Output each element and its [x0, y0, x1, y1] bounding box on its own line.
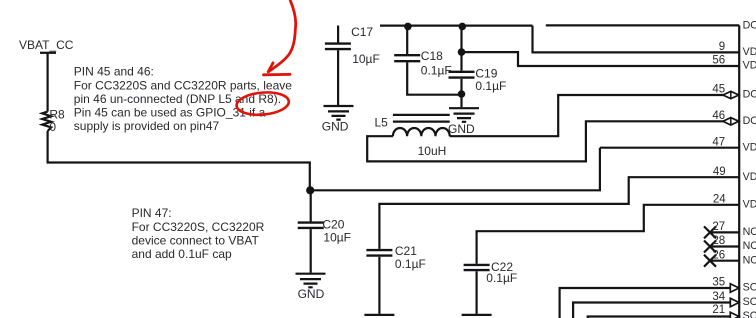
- svg-text:C20: C20: [322, 218, 344, 232]
- svg-text:47: 47: [712, 136, 725, 148]
- svg-text:28: 28: [712, 235, 725, 247]
- svg-text:SOP: SOP: [743, 282, 756, 294]
- svg-text:GND: GND: [448, 122, 475, 136]
- wire rail drop to pin 9: [533, 26, 740, 53]
- wire C18 bottom to C19 node: [407, 62, 461, 94]
- svg-text:0.1µF: 0.1µF: [475, 79, 506, 93]
- svg-text:DCD: DCD: [743, 89, 756, 101]
- no-connect X pin 27: [704, 226, 716, 238]
- capacitor C17: [325, 44, 351, 50]
- wire C20 to ground: [310, 229, 312, 273]
- capacitor C22: [464, 265, 490, 270]
- wire C17 to ground: [337, 50, 339, 105]
- note PIN 45 and 46: [74, 65, 292, 133]
- red annotation oval around and R8: [236, 90, 290, 116]
- ground bar under C21: [364, 314, 394, 316]
- svg-text:SOP: SOP: [743, 310, 756, 318]
- inductor L5 core lines: [393, 115, 450, 122]
- junction dot rail C18: [404, 23, 412, 31]
- svg-text:SOP: SOP: [743, 296, 756, 308]
- svg-text:0.1µF: 0.1µF: [395, 257, 426, 271]
- wire C22 riser to pin 24: [477, 205, 740, 264]
- wire C17 top stub: [337, 26, 339, 43]
- svg-text:56: 56: [712, 55, 725, 67]
- wire C21 to ground: [378, 257, 380, 314]
- ground bar under C22: [462, 314, 492, 316]
- svg-text:NC: NC: [743, 254, 756, 266]
- wire C19 branch: [460, 26, 462, 71]
- wire pin 21 from bottom: [588, 317, 731, 318]
- input arrow pin 21: [730, 312, 739, 318]
- junction dot rail C19: [459, 23, 467, 31]
- svg-text:NC: NC: [743, 240, 756, 252]
- svg-text:GND: GND: [322, 120, 349, 134]
- svg-text:PIN 45 and 46:: PIN 45 and 46:: [74, 65, 154, 79]
- inductor L5: [393, 128, 450, 136]
- svg-text:C21: C21: [395, 244, 417, 258]
- svg-text:For CC3220S and CC3220R parts,: For CC3220S and CC3220R parts, leave: [74, 78, 292, 92]
- bidirectional arrow pin 45: [723, 91, 739, 98]
- ground under C19: [449, 108, 479, 122]
- wire NC pin 26 stub: [710, 260, 739, 262]
- svg-text:10uH: 10uH: [418, 144, 447, 158]
- svg-text:0.1µF: 0.1µF: [421, 64, 452, 78]
- svg-text:34: 34: [712, 291, 725, 303]
- svg-text:46: 46: [712, 110, 725, 122]
- svg-text:27: 27: [712, 221, 725, 233]
- wire C21 riser to pin 49: [379, 177, 739, 249]
- svg-text:PIN 47:: PIN 47:: [132, 206, 172, 220]
- junction dot node VDD_ANA: [306, 186, 314, 194]
- svg-text:45: 45: [712, 84, 725, 96]
- svg-text:10µF: 10µF: [323, 231, 351, 245]
- no-connect X pin 26: [704, 255, 716, 267]
- bidirectional arrow pin 46: [723, 118, 739, 125]
- svg-text:C18: C18: [421, 49, 443, 63]
- wire pin 56 from C19: [462, 52, 740, 66]
- wire C22 to ground: [476, 271, 478, 314]
- junction dot C19 bottom: [458, 90, 466, 98]
- wire NC pin 27 stub: [710, 231, 739, 233]
- svg-text:DCD: DCD: [743, 20, 756, 32]
- capacitor C21: [366, 250, 392, 256]
- red annotation arrowhead: [264, 63, 291, 75]
- note PIN 47: [132, 206, 265, 261]
- svg-text:VDD: VDD: [743, 141, 756, 153]
- capacitor C18: [394, 55, 420, 61]
- svg-text:For CC3220S, CC3220R: For CC3220S, CC3220R: [132, 220, 265, 234]
- svg-text:device connect to VBAT: device connect to VBAT: [132, 233, 260, 247]
- capacitor C19: [449, 72, 475, 78]
- svg-text:supply is provided on pin47: supply is provided on pin47: [74, 119, 220, 133]
- svg-text:VDD: VDD: [743, 198, 756, 210]
- svg-text:GND: GND: [298, 287, 325, 301]
- input arrow pin 34: [730, 298, 739, 307]
- svg-text:21: 21: [712, 304, 725, 316]
- svg-text:35: 35: [712, 277, 725, 289]
- svg-text:and add 0.1uF cap: and add 0.1uF cap: [132, 247, 232, 261]
- wire L5 left to pin 46: [367, 121, 739, 161]
- capacitor C20: [298, 223, 324, 228]
- svg-text:0: 0: [49, 120, 56, 134]
- ground under C17: [324, 106, 354, 120]
- ground under C20: [296, 274, 326, 288]
- wire junction to C20: [310, 190, 312, 221]
- svg-text:49: 49: [713, 166, 726, 178]
- svg-text:10µF: 10µF: [352, 52, 380, 66]
- junction dot C19 pin56: [458, 48, 466, 56]
- wire C18 branch: [406, 26, 408, 54]
- no-connect X pin 28: [704, 241, 716, 253]
- svg-text:DCD: DCD: [743, 115, 756, 127]
- wire R8 to corner and across to junction: [48, 131, 310, 190]
- svg-text:0.1µF: 0.1µF: [486, 271, 517, 285]
- wire top DC pin: [546, 24, 739, 26]
- red annotation arrow: [268, 1, 295, 72]
- svg-text:L5: L5: [375, 116, 389, 130]
- svg-text:9: 9: [719, 41, 725, 53]
- wire L5 right to pin 45: [450, 95, 740, 136]
- wire VBAT_CC tap bar: [40, 52, 56, 54]
- input arrow pin 35: [730, 284, 739, 293]
- wire pin 34 from bottom: [573, 303, 730, 318]
- wire pin 35 from bottom: [560, 288, 731, 318]
- svg-text:26: 26: [712, 249, 725, 261]
- svg-text:VDD: VDD: [743, 60, 756, 72]
- svg-text:C17: C17: [351, 25, 373, 39]
- svg-text:VBAT_CC: VBAT_CC: [19, 38, 74, 52]
- wire NC pin 28 stub: [710, 245, 739, 247]
- wire C19 to ground: [460, 79, 462, 107]
- wire junction to pin 47 riser: [310, 148, 600, 191]
- IC left edge U?: [738, 25, 740, 318]
- wire VBAT rail: [380, 25, 533, 27]
- resistor R8: [42, 112, 51, 131]
- svg-text:NC: NC: [743, 226, 756, 238]
- wire pin 47: [600, 147, 739, 149]
- svg-text:24: 24: [713, 194, 726, 206]
- svg-text:VDD: VDD: [743, 46, 756, 58]
- svg-text:VDD: VDD: [743, 171, 756, 183]
- wire VBAT_CC to R8: [46, 53, 48, 112]
